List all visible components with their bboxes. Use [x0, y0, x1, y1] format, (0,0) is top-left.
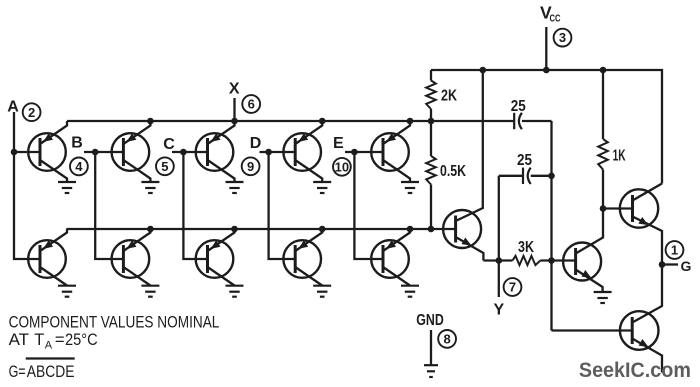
- svg-text:9: 9: [247, 159, 254, 174]
- svg-text:ABCDE: ABCDE: [27, 362, 75, 381]
- svg-text:GND: GND: [416, 312, 444, 329]
- svg-text:E: E: [333, 135, 344, 152]
- svg-text:6: 6: [248, 97, 255, 112]
- svg-text:1K: 1K: [613, 147, 626, 164]
- svg-text:AT: AT: [9, 330, 30, 349]
- svg-text:25°C: 25°C: [65, 330, 98, 349]
- svg-text:C: C: [163, 136, 175, 153]
- svg-text:3K: 3K: [518, 239, 534, 256]
- svg-text:T: T: [34, 330, 44, 349]
- svg-text:25: 25: [517, 152, 532, 169]
- svg-text:=: =: [55, 330, 65, 349]
- svg-text:2: 2: [28, 105, 35, 120]
- svg-text:G=: G=: [9, 362, 26, 381]
- svg-text:CC: CC: [550, 13, 561, 25]
- svg-text:7: 7: [509, 280, 516, 295]
- svg-text:0.5K: 0.5K: [440, 163, 466, 180]
- svg-text:25: 25: [511, 98, 526, 115]
- svg-text:G: G: [681, 258, 692, 274]
- svg-text:Y: Y: [493, 302, 504, 319]
- svg-text:D: D: [250, 135, 262, 152]
- svg-text:SeekIC.com: SeekIC.com: [579, 358, 691, 382]
- svg-text:B: B: [71, 135, 83, 152]
- svg-text:X: X: [229, 81, 240, 98]
- svg-text:10: 10: [335, 159, 349, 174]
- svg-text:COMPONENT VALUES NOMINAL: COMPONENT VALUES NOMINAL: [9, 312, 220, 331]
- svg-text:4: 4: [75, 159, 83, 174]
- svg-text:1: 1: [671, 243, 678, 258]
- svg-text:8: 8: [443, 332, 450, 347]
- svg-text:5: 5: [161, 159, 168, 174]
- svg-text:3: 3: [559, 30, 566, 45]
- svg-text:2K: 2K: [441, 87, 457, 104]
- svg-text:A: A: [7, 99, 19, 116]
- svg-text:A: A: [45, 340, 53, 352]
